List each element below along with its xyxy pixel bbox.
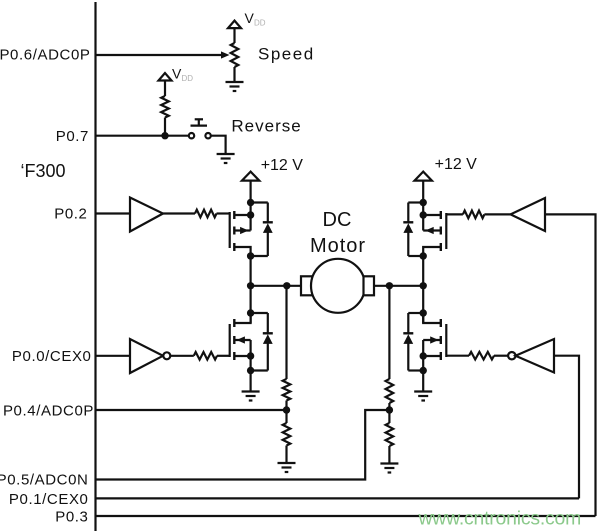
motor M1 left brush [301, 276, 313, 295]
transistor Q4 channel bar [440, 319, 442, 360]
junction dot right motor node [420, 282, 427, 289]
wire P0.3 line [96, 515, 596, 517]
wire potentiometer to ground [233, 67, 235, 82]
transistor Q2 body lead with NMOS arrow [234, 339, 250, 341]
motor M1 body [311, 259, 365, 313]
transistor Q1 source lead [234, 214, 250, 216]
junction dot Q1 drain node [247, 252, 254, 259]
resistor right sense upper [386, 379, 394, 403]
wire right motor lead [374, 285, 423, 287]
wire +12V to Q1 source node [250, 181, 252, 231]
svg-text:V: V [172, 66, 182, 82]
svg-text:V: V [245, 10, 255, 26]
junction dot Q4 source lead [420, 352, 427, 359]
svg-text:Reverse: Reverse [231, 117, 301, 136]
wire buffer U3 input from P0.3 net [545, 214, 596, 516]
wire buffer U1 to gate resistor [163, 212, 195, 214]
wire gate resistor to Q1 gate [217, 212, 230, 214]
VDD supply symbol above speed pot [228, 21, 241, 29]
svg-text:DD: DD [182, 74, 194, 83]
diode D4 (Q4 body diode) [403, 313, 413, 371]
wire VDD to potentiometer [233, 28, 235, 43]
wiper arrow into potentiometer [221, 51, 230, 58]
junction dot Q3 drain node [420, 252, 427, 259]
wire left divider to ground [285, 446, 287, 464]
svg-text:+12 V: +12 V [435, 156, 478, 173]
resistor Q4 gate [469, 352, 494, 360]
resistor Q3 gate [463, 211, 485, 219]
svg-text:www.cntronics.com: www.cntronics.com [418, 508, 582, 530]
svg-text:P0.7: P0.7 [56, 128, 89, 145]
svg-text:P0.0/CEX0: P0.0/CEX0 [12, 348, 92, 365]
body diode D4 branch wires [408, 312, 423, 314]
junction dot left sense divider tap [283, 282, 290, 289]
buffer U3 (right high side driver) [511, 198, 546, 231]
wire left motor node to divider [285, 286, 287, 379]
transistor Q1 body lead with PMOS arrow [234, 229, 250, 231]
wire Q3 gate to resistor [446, 213, 463, 215]
resistor left sense upper [283, 379, 291, 401]
wire +12V to Q3 source node [422, 181, 424, 231]
transistor Q4 gate plate [445, 324, 447, 357]
junction dot Q3 diode top tap [420, 199, 427, 206]
svg-text:Speed: Speed [258, 45, 315, 64]
svg-text:+12 V: +12 V [261, 157, 304, 174]
wire P0.4 line [96, 409, 287, 411]
resistor left sense lower [283, 423, 291, 446]
transistor Q2 drain lead [234, 313, 250, 323]
junction dot Q4 diode top tap [420, 309, 427, 316]
junction dot Q2 diode top tap [247, 309, 254, 316]
svg-text:‘F300: ‘F300 [21, 161, 66, 181]
wire Q4 body tie [422, 340, 424, 356]
svg-text:P0.1/CEX0: P0.1/CEX0 [9, 491, 89, 508]
wire Q2 body tie [250, 340, 252, 356]
wire P0.6 to speed pot wiper [96, 54, 222, 56]
junction dot Q1 diode top tap [247, 199, 254, 206]
transistor Q3 channel bar [440, 211, 442, 251]
junction dot P0.5 sense node [386, 406, 393, 413]
transistor Q3 body arrow [425, 227, 434, 234]
wire pullup resistor to P0.7 node [164, 118, 166, 136]
diode D1 (Q1 body diode) [263, 203, 273, 257]
transistor Q4 drain lead [423, 313, 441, 323]
transistor Q3 drain lead [423, 247, 441, 256]
svg-text:P0.3: P0.3 [55, 509, 88, 526]
wire Q2 source to ground [250, 356, 252, 392]
junction dot Q4 source/diode node [420, 367, 427, 374]
pushbutton switch Reverse [189, 119, 211, 138]
wire switch to ground [211, 136, 226, 154]
resistor Q2 gate [194, 352, 217, 360]
transistor Q4 body lead with NMOS arrow [423, 339, 441, 341]
wire Q4 source to ground [422, 356, 424, 392]
transistor Q1 drain lead [234, 247, 250, 256]
junction dot P0.4 sense node [283, 406, 290, 413]
motor M1 right brush [364, 276, 375, 295]
wire P0.2 to buffer [96, 212, 131, 214]
junction dot P0.7/pullup/switch [161, 132, 168, 139]
svg-text:P0.2: P0.2 [54, 206, 87, 223]
transistor Q2 gate plate [229, 324, 231, 357]
ground (reverse switch) [217, 154, 235, 163]
transistor Q1 body arrow [240, 227, 249, 234]
resistor Q1 gate [195, 210, 217, 218]
junction dot Q3 source lead [420, 211, 427, 218]
transistor Q3 source lead [423, 214, 441, 216]
svg-text:Motor: Motor [310, 235, 366, 257]
transistor Q2 source lead [234, 355, 250, 357]
potentiometer Speed (resistor body) [231, 43, 239, 67]
wire left divider middle [285, 401, 287, 424]
transistor Q4 body arrow [430, 336, 439, 343]
wire P0.5 line to right sense node [96, 410, 390, 480]
body diode D3 branch wires [408, 201, 423, 203]
resistor right sense lower [386, 423, 394, 446]
transistor Q3 body lead with PMOS arrow [423, 229, 441, 231]
wire gate resistor to Q2 gate [217, 355, 230, 357]
junction dot Q1 source lead [247, 211, 254, 218]
junction dot Q2 source/diode node [247, 367, 254, 374]
svg-text:P0.4/ADC0P: P0.4/ADC0P [3, 403, 94, 420]
wire left motor lead [251, 285, 301, 287]
ground (speed pot) [226, 82, 244, 91]
+12V supply symbol (right) [415, 172, 432, 181]
transistor Q2 body arrow [236, 336, 245, 343]
transistor Q1 channel bar [233, 211, 235, 251]
wire inverter U4 input from P0.1 net [554, 356, 579, 499]
buffer U1 (P0.2 gate driver) [130, 198, 163, 232]
wire Q4 gate to resistor [446, 355, 469, 357]
ground (right divider) [380, 464, 398, 473]
inverter U2 (P0.0 gate driver) [130, 339, 163, 373]
ground (left divider) [278, 463, 296, 472]
wire resistor to inverter U4 [494, 355, 508, 357]
diode D3 (Q3 body diode) [403, 203, 413, 257]
+12V supply symbol (left) [242, 172, 259, 181]
transistor Q1 gate plate [229, 212, 231, 248]
body diode D1 branch wires [251, 201, 268, 203]
svg-text:DC: DC [323, 209, 352, 231]
transistor Q2 channel bar [233, 319, 235, 360]
body diode D2 branch wires [251, 312, 268, 314]
ground (Q2 source) [242, 392, 260, 401]
wire right divider middle [388, 403, 390, 423]
wire right motor node to divider [388, 286, 390, 379]
svg-text:DD: DD [254, 19, 266, 28]
junction dot left motor node [247, 282, 254, 289]
wire VDD to pullup resistor [164, 81, 166, 97]
MCU boundary line (port P0 pins) [94, 2, 96, 531]
svg-text:P0.6/ADC0P: P0.6/ADC0P [0, 47, 91, 64]
wire inverter U2 to gate resistor [170, 355, 194, 357]
wire left bridge mid rail [250, 256, 252, 323]
wire P0.7 line [96, 135, 189, 137]
wire resistor to buffer U3 [484, 213, 510, 215]
wire right divider to ground [388, 446, 390, 464]
transistor Q4 source lead [423, 355, 441, 357]
wire right bridge mid rail [422, 256, 424, 323]
junction dot right sense divider tap [386, 282, 393, 289]
VDD supply symbol above pullup resistor [159, 73, 172, 81]
svg-text:P0.5/ADC0N: P0.5/ADC0N [0, 472, 89, 489]
wire P0.1 line [96, 497, 580, 499]
ground (Q4 source) [414, 392, 432, 401]
wire P0.0 to inverter [96, 355, 131, 357]
diode D2 (Q2 body diode) [263, 313, 273, 371]
junction dot Q2 source lead [247, 352, 254, 359]
pullup resistor on P0.7 [161, 96, 169, 118]
transistor Q3 gate plate [445, 213, 447, 249]
inverter U4 (right low side driver) [508, 352, 515, 359]
